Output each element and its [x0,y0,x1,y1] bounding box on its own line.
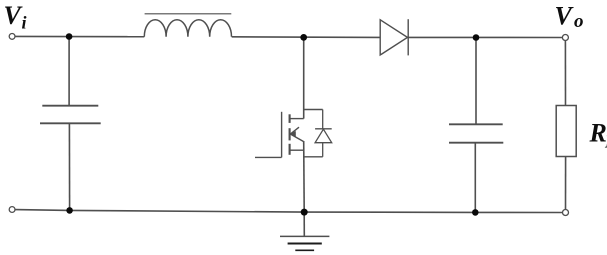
wire top rail left [15,35,144,37]
inductor L1 [144,20,231,37]
wire mosfet drain [303,37,305,118]
wire top rail right [408,36,562,38]
wire bottom rail [15,210,563,213]
ground [280,236,329,250]
resistor RL [556,106,576,157]
svg-text:V: V [4,1,24,30]
input terminal bottom [9,207,15,213]
svg-text:o: o [574,11,584,32]
wire load top [564,41,566,106]
capacitor C1 [40,106,101,124]
node input cap bottom [66,207,73,214]
output terminal bottom [563,210,569,216]
transistor Q1 [255,112,304,158]
svg-text:i: i [22,12,27,32]
wire mosfet source to rail [303,141,306,212]
output terminal top [562,35,568,41]
wire drain to body diode [304,109,323,111]
arrowhead of Q1 body [290,131,296,137]
wire input cap bottom [68,123,70,210]
wire output cap bottom [474,143,476,213]
wire ground stub [303,212,305,236]
diode D1 [380,19,408,55]
input terminal top [9,34,15,40]
capacitor C2 [449,124,503,142]
node output cap top [473,34,480,41]
node output cap bottom [472,209,479,216]
svg-text:V: V [555,2,575,31]
body diode of Q1 [304,110,332,157]
node input cap top [66,33,73,40]
wire input cap top [68,37,70,106]
node mosfet drain [300,34,307,41]
wire load bottom [565,157,567,210]
node ground [301,209,308,216]
wire top rail middle [232,36,381,39]
wire output cap top [475,38,477,125]
